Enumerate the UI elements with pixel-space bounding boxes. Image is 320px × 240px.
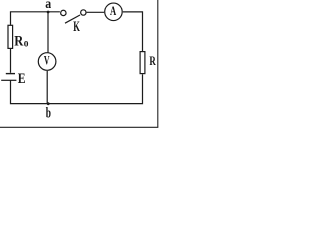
wire voltmeter branch upper (node a to voltmeter) [47,13,49,53]
wire ammeter to resistor R (top-right corner) [123,12,143,51]
resistor R [140,52,145,74]
battery E short plate [6,73,15,75]
svg-text:A: A [110,4,117,18]
battery E long plate [1,79,16,81]
svg-text:R: R [149,54,156,68]
svg-text:K: K [73,19,80,35]
wire bottom-left (node b to left corner up to battery) [11,80,49,103]
ammeter A [105,3,123,21]
node a [47,11,50,14]
switch K blade [65,15,80,23]
svg-text:R: R [14,34,23,50]
wire top-left (left rail top + top wire to switch) [11,12,60,25]
svg-text:0: 0 [24,38,29,48]
node b [47,102,50,105]
wire battery to resistor R0 [10,49,12,73]
svg-text:a: a [45,0,51,11]
switch K contact right [81,10,86,15]
switch K contact left [61,10,66,15]
wire voltmeter branch lower (voltmeter to node b) [46,71,48,104]
wire resistor R to node b (right rail bottom + bottom wire) [48,74,142,103]
resistor R0 [8,25,13,48]
svg-text:V: V [44,54,50,68]
svg-text:b: b [46,106,51,122]
voltmeter V [38,53,56,71]
svg-text:E: E [18,71,26,87]
wire switch to ammeter [87,11,105,13]
